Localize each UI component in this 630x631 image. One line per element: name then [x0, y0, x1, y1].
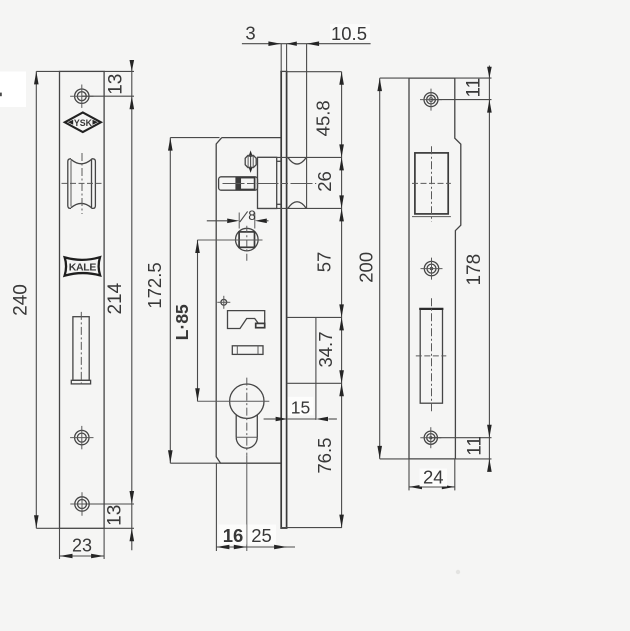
dim 240 (left): [10, 71, 59, 528]
svg-text:34.7: 34.7: [315, 331, 336, 367]
white patch at left edge: [0, 72, 26, 108]
faceplate strip (edge view): [280, 71, 282, 528]
follower (spindle hub): [197, 226, 262, 261]
strike screw hole bottom: [420, 427, 441, 448]
svg-text:214: 214: [105, 282, 126, 314]
dim 3 / 10.5 (top): [242, 23, 371, 72]
faint smudge: [456, 570, 460, 574]
roller latch protrusion (side): [288, 158, 306, 164]
svg-text:76.5: 76.5: [314, 438, 335, 474]
dim column 13/214/13 (left view right): [82, 60, 134, 550]
svg-text:23: 23: [72, 536, 92, 556]
photo edge sliver: [0, 93, 2, 97]
screw hole bottom: [70, 492, 94, 515]
dim column 11/178/11 (right view right): [431, 66, 492, 472]
dim 172.5 (mid left): [144, 138, 221, 464]
svg-text:13: 13: [105, 505, 126, 526]
svg-text:25: 25: [251, 525, 272, 546]
KALE bowtie logo: [65, 257, 101, 276]
latch bolt stem: [219, 177, 317, 190]
strike screw hole middle: [421, 258, 443, 280]
svg-text:10.5: 10.5: [331, 23, 367, 44]
euro cylinder hole: [197, 378, 269, 456]
small slot: [232, 346, 263, 355]
step line: [287, 316, 342, 318]
dim 23 (left bottom): [60, 528, 105, 559]
profile edge line upper: [306, 44, 308, 209]
dim L-85 (mid left inner): [172, 240, 200, 401]
svg-text:13: 13: [106, 74, 127, 95]
svg-text:YSK: YSK: [74, 118, 93, 128]
cylinder-top reference line: [287, 382, 342, 384]
strike latch hole: [412, 146, 451, 221]
strike screw hole top: [420, 89, 442, 111]
bridge cutout: [228, 311, 265, 329]
svg-text:172.5: 172.5: [144, 262, 165, 308]
dim 200 (right view left): [356, 78, 409, 459]
svg-text:11: 11: [463, 78, 484, 98]
svg-text:8: 8: [248, 208, 256, 223]
strike deadbolt hole: [416, 298, 447, 413]
latch housing: [258, 157, 277, 208]
strike plate outline: [409, 78, 461, 459]
YSK diamond logo: [65, 113, 101, 133]
svg-text:240: 240: [10, 284, 31, 316]
deadbolt slot (front): [71, 312, 90, 386]
svg-text:45.8: 45.8: [313, 100, 334, 136]
svg-text:200: 200: [356, 252, 377, 283]
dim column 45.8/26/57/34.7/76.5 (mid right): [258, 72, 344, 528]
faceplate (front view): [60, 71, 105, 528]
svg-text:16: 16: [223, 525, 244, 546]
dim 16 / 25 (mid bottom): [216, 455, 295, 551]
svg-text:3: 3: [245, 23, 255, 44]
svg-text:15: 15: [291, 398, 310, 418]
svg-text:57: 57: [314, 252, 335, 273]
roller latch (front): [62, 153, 103, 214]
follower 8mm dim: [207, 208, 269, 229]
svg-text:L·85: L·85: [172, 304, 192, 340]
svg-text:11: 11: [464, 436, 485, 456]
svg-text:KALE: KALE: [69, 261, 97, 273]
svg-text:178: 178: [464, 254, 485, 286]
adjustment hex screw with arrows: [245, 150, 256, 173]
screw hole middle: [70, 426, 93, 449]
svg-text:24: 24: [423, 467, 444, 488]
dim 15 (mid): [264, 397, 337, 422]
dim 24 (right bottom): [409, 459, 455, 491]
lock case outline: [216, 138, 281, 464]
profile edge line lower: [315, 317, 317, 420]
svg-text:26: 26: [314, 171, 335, 192]
screw hole top: [70, 85, 93, 108]
small cross marker: [217, 296, 230, 309]
